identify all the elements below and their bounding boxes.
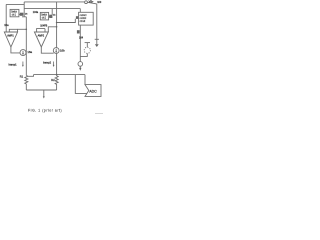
svg-text:circuit: circuit bbox=[80, 20, 86, 23]
box switch ckt 1 bbox=[10, 9, 19, 16]
wire box2 output to AMP2 input bbox=[44, 29, 46, 32]
current arrow Imod bbox=[22, 62, 24, 66]
border tick bottom right bbox=[95, 113, 103, 115]
resistor R1 bbox=[25, 75, 28, 90]
svg-text:16b: 16b bbox=[60, 49, 65, 53]
current source I1 arrowhead bbox=[22, 53, 24, 55]
laser diode triangle bbox=[95, 44, 99, 47]
svg-text:1b: 1b bbox=[53, 15, 56, 17]
wire branch to photodiode bbox=[80, 53, 87, 56]
svg-text:10a: 10a bbox=[4, 23, 9, 27]
svg-text:VB+: VB+ bbox=[89, 0, 94, 4]
wire rail A corner down right bbox=[96, 4, 98, 44]
ADC block pentagon bbox=[85, 85, 101, 97]
svg-text:ADC: ADC bbox=[89, 90, 97, 94]
svg-text:16: 16 bbox=[25, 14, 28, 16]
wire box2 to pad2 bbox=[49, 16, 50, 18]
ground arrowhead bbox=[43, 96, 45, 98]
wire monitor line y22 bbox=[57, 19, 76, 23]
svg-text:AMP2: AMP2 bbox=[38, 34, 45, 37]
wire R1 tap bbox=[28, 75, 33, 77]
current source I2 arrowhead bbox=[55, 51, 57, 53]
current arrow Ibias bbox=[53, 62, 55, 66]
svg-text:ckt 1: ckt 1 bbox=[12, 14, 17, 17]
wire AMP1 output bbox=[11, 47, 20, 53]
svg-text:R2: R2 bbox=[51, 78, 55, 82]
pad box2 output bbox=[49, 15, 52, 18]
wire box3 down bbox=[79, 25, 81, 62]
junction dot mon bbox=[56, 22, 58, 24]
box control ckt bbox=[79, 12, 94, 25]
current source I1 circle bbox=[20, 50, 26, 56]
junction dot fb2 bbox=[56, 26, 58, 28]
svg-text:R1: R1 bbox=[20, 75, 24, 79]
meter arrowhead bbox=[79, 68, 81, 71]
wire AMP1 feedback bbox=[18, 28, 27, 30]
wire step vertical bbox=[23, 2, 25, 17]
wire rail A to current source I2 bbox=[56, 2, 58, 48]
pad box1 output bbox=[20, 13, 24, 16]
wire tee to ADC input bbox=[75, 75, 86, 94]
wire below meter bbox=[79, 66, 81, 68]
svg-text:164: 164 bbox=[79, 37, 84, 40]
svg-text:ckt 2: ckt 2 bbox=[42, 17, 47, 20]
ground arrow stem bbox=[43, 90, 45, 97]
svg-text:Switch: Switch bbox=[41, 13, 48, 16]
svg-text:Iramp1: Iramp1 bbox=[9, 62, 18, 66]
pad box3 input B bbox=[77, 30, 80, 33]
wire rail B (VDD left) bbox=[6, 3, 24, 5]
wire AMP2 feedback bbox=[48, 27, 56, 32]
wire AMP2 output bbox=[41, 47, 53, 53]
svg-text:Switch: Switch bbox=[11, 11, 18, 14]
wire left output line bbox=[25, 17, 27, 76]
op-amp AMP1 bbox=[4, 32, 17, 47]
wire right output line bbox=[56, 53, 58, 76]
box switch ckt 2 bbox=[40, 12, 48, 20]
resistor R2 bbox=[55, 76, 58, 90]
svg-text:Iramp2: Iramp2 bbox=[43, 60, 52, 64]
wire bottom rail bbox=[26, 89, 56, 91]
wire AMP2 input bar bbox=[37, 29, 45, 32]
svg-text:104a: 104a bbox=[33, 11, 39, 14]
wire rail C bbox=[24, 8, 80, 10]
current source I2 arrow bbox=[55, 49, 57, 52]
junction dot fb1 bbox=[26, 29, 28, 31]
connector circle on rail A bbox=[85, 1, 88, 4]
current source I2 circle bbox=[53, 48, 59, 54]
op-amp AMP2 bbox=[34, 32, 48, 47]
laser diode top bar bbox=[95, 38, 99, 40]
wire AMP1 input bar bbox=[9, 29, 17, 32]
wire rail C corner down bbox=[79, 9, 81, 13]
junction node dot bbox=[56, 74, 58, 76]
wire rail A right section bbox=[87, 2, 96, 4]
photodiode dashed circle bbox=[84, 47, 90, 53]
wire pad2 up to rail C bbox=[51, 9, 53, 16]
meter circle bbox=[78, 62, 83, 67]
svg-text:AMP1: AMP1 bbox=[7, 34, 14, 37]
wire rail A (top VDD) bbox=[24, 1, 84, 3]
wire AMP1 left input bbox=[5, 4, 7, 32]
svg-text:104FB: 104FB bbox=[40, 25, 47, 28]
terminal T bar bbox=[85, 42, 90, 44]
svg-text:FIG. 1 (prior art): FIG. 1 (prior art) bbox=[28, 109, 62, 113]
wire sense line y74.6 bbox=[34, 74, 86, 76]
wire pad1 to node bbox=[22, 16, 26, 18]
wire above dashed circle bbox=[86, 43, 88, 48]
wire box1 to pad1 bbox=[19, 13, 21, 15]
wire down to ADC top bbox=[84, 75, 86, 85]
current source I1 arrow bbox=[22, 51, 24, 54]
svg-text:16a: 16a bbox=[27, 50, 32, 54]
pad box3 input A bbox=[76, 16, 78, 19]
svg-text:100: 100 bbox=[97, 1, 102, 4]
